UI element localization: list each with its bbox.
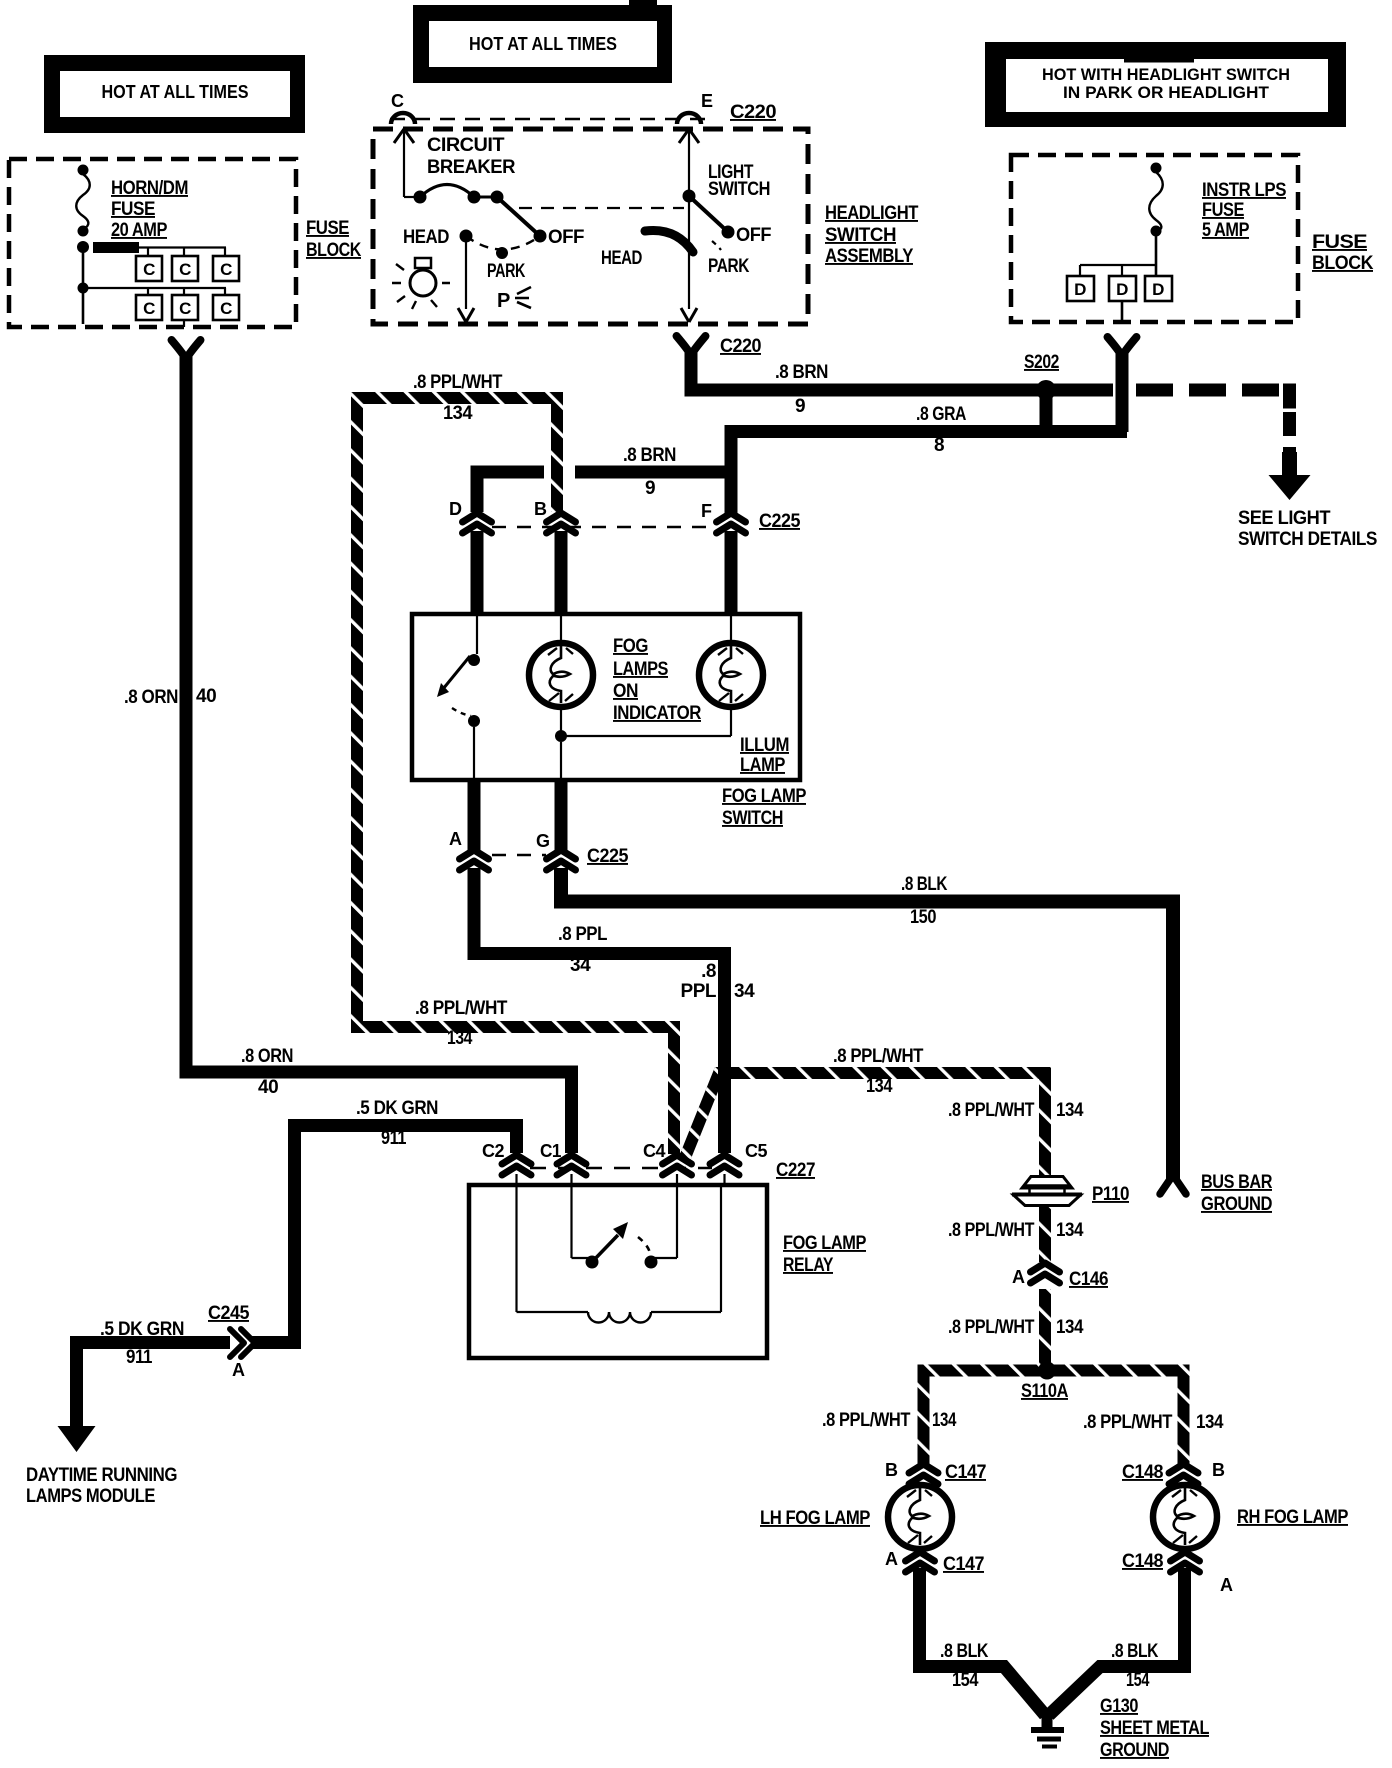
pin A connector bbox=[449, 829, 489, 870]
circuit breaker switch blade bbox=[497, 197, 540, 236]
svg-text:B: B bbox=[885, 1460, 898, 1480]
svg-text:A: A bbox=[885, 1549, 898, 1569]
headlamp icon bbox=[392, 258, 450, 309]
label .8 ORN 40 (vertical run) bbox=[124, 686, 216, 708]
svg-text:PARK: PARK bbox=[487, 261, 526, 282]
svg-text:.8: .8 bbox=[701, 961, 716, 982]
grommet P110 bbox=[1012, 1177, 1082, 1206]
svg-text:C225: C225 bbox=[587, 846, 629, 867]
svg-text:P110: P110 bbox=[1092, 1184, 1129, 1205]
svg-text:P: P bbox=[497, 290, 510, 312]
cavity C row2 box2 bbox=[172, 295, 198, 320]
fuse HORN/DM element bbox=[76, 174, 90, 229]
svg-text:134: 134 bbox=[932, 1410, 957, 1431]
svg-text:IN PARK OR HEADLIGHT: IN PARK OR HEADLIGHT bbox=[1063, 83, 1270, 102]
lamp common junction bbox=[555, 730, 731, 779]
cavity D box3 bbox=[1145, 276, 1172, 301]
label .5 DK GRN 911 (lower) bbox=[100, 1319, 184, 1368]
fog lamp relay box bbox=[469, 1185, 767, 1358]
wire .8 BLK 154 from RH lamp to ground bbox=[1049, 1568, 1185, 1715]
label .8 PPL/WHT 134 (RH branch) bbox=[1083, 1412, 1224, 1433]
illum lamp (right) bbox=[699, 616, 763, 736]
svg-text:C: C bbox=[179, 299, 191, 318]
label FUSE BLOCK (left) bbox=[306, 218, 362, 261]
label G130 SHEET METAL GROUND bbox=[1100, 1696, 1210, 1761]
label CIRCUIT BREAKER bbox=[427, 135, 516, 178]
svg-text:A: A bbox=[449, 829, 462, 849]
pin D connector bbox=[449, 499, 492, 533]
connector C225 lower dashed link bbox=[492, 854, 546, 856]
pin B connector C147 bbox=[885, 1460, 938, 1484]
wire bus row1 bbox=[139, 246, 226, 248]
label DAYTIME RUNNING LAMPS MODULE bbox=[26, 1465, 177, 1507]
svg-text:911: 911 bbox=[126, 1347, 153, 1368]
svg-text:C147: C147 bbox=[945, 1462, 986, 1483]
svg-text:SWITCH: SWITCH bbox=[825, 225, 896, 246]
breaker PARK contact dashed arc bbox=[466, 236, 540, 282]
svg-text:.8 BLK: .8 BLK bbox=[901, 874, 948, 895]
svg-text:HOT WITH HEADLIGHT SWITCH: HOT WITH HEADLIGHT SWITCH bbox=[1042, 65, 1290, 84]
svg-text:.8 PPL/WHT: .8 PPL/WHT bbox=[1083, 1412, 1173, 1433]
label PARK (light switch) with dashes bbox=[708, 241, 750, 277]
svg-text:C: C bbox=[143, 260, 155, 279]
svg-text:C147: C147 bbox=[943, 1554, 984, 1575]
svg-text:FOG LAMP: FOG LAMP bbox=[722, 786, 807, 807]
connector at left fuse block exit bbox=[172, 340, 201, 359]
wire row2 stub bbox=[183, 320, 185, 327]
svg-text:C: C bbox=[179, 260, 191, 279]
banner HOT WITH HEADLIGHT SWITCH IN PARK OR HEADLIGHT bbox=[985, 42, 1346, 127]
svg-text:B: B bbox=[1212, 1460, 1225, 1480]
fog lamp switch box bbox=[412, 614, 800, 780]
node at INSTR fuse top bbox=[1151, 163, 1162, 174]
connector C146 pin A bbox=[1012, 1263, 1060, 1287]
svg-text:INSTR LPS: INSTR LPS bbox=[1202, 180, 1286, 201]
label LIGHT SWITCH bbox=[708, 162, 770, 200]
fuse block (left) dashed box bbox=[9, 159, 296, 327]
light switch pivot bbox=[683, 190, 696, 203]
pin C bump bbox=[391, 113, 415, 124]
label .8 GRA 8 bbox=[916, 404, 967, 456]
svg-text:150: 150 bbox=[910, 907, 936, 928]
svg-text:RH FOG LAMP: RH FOG LAMP bbox=[1237, 1507, 1349, 1528]
svg-text:134: 134 bbox=[1056, 1100, 1084, 1121]
svg-text:D: D bbox=[1074, 280, 1086, 299]
node below INSTR fuse bbox=[1151, 226, 1162, 237]
connector at right fuse block exit bbox=[1108, 337, 1137, 356]
label .8 PPL/WHT 134 (LH branch) bbox=[822, 1410, 957, 1431]
svg-text:.8 BLK: .8 BLK bbox=[1111, 1641, 1159, 1662]
cavity C row1 box3 bbox=[213, 256, 239, 281]
svg-text:FUSE: FUSE bbox=[1202, 200, 1244, 221]
svg-text:.8 PPL/WHT: .8 PPL/WHT bbox=[948, 1100, 1035, 1121]
wire to D cavities bbox=[1080, 236, 1156, 276]
svg-text:SWITCH: SWITCH bbox=[722, 808, 783, 829]
svg-text:20 AMP: 20 AMP bbox=[111, 220, 168, 241]
node at fuse top bbox=[78, 165, 89, 176]
label .8 ORN 40 (horizontal run) bbox=[241, 1046, 293, 1098]
pin B connector C148 bbox=[1169, 1460, 1225, 1484]
svg-text:FUSE: FUSE bbox=[1312, 232, 1367, 253]
pin E arrow into box bbox=[679, 129, 699, 196]
svg-text:C4: C4 bbox=[643, 1141, 665, 1161]
indicator lamp (left) bbox=[529, 616, 593, 736]
svg-text:BLOCK: BLOCK bbox=[306, 240, 362, 261]
svg-text:ILLUM: ILLUM bbox=[740, 735, 789, 756]
svg-text:.8 PPL/WHT: .8 PPL/WHT bbox=[948, 1220, 1035, 1241]
svg-text:C220: C220 bbox=[720, 336, 761, 357]
svg-text:134: 134 bbox=[1056, 1317, 1084, 1338]
label .8 PPL/WHT 134 (above P110) bbox=[948, 1100, 1084, 1121]
label HORN/DM FUSE 20 AMP bbox=[111, 178, 188, 241]
svg-text:40: 40 bbox=[196, 686, 216, 707]
left bus vertical bbox=[82, 252, 85, 324]
wire .8 PPL/WHT to LH and RH fog lamps bbox=[924, 1371, 1184, 1467]
svg-text:C: C bbox=[391, 91, 404, 111]
label FUSE BLOCK (right) bbox=[1312, 232, 1374, 274]
svg-text:SWITCH DETAILS: SWITCH DETAILS bbox=[1238, 529, 1377, 550]
svg-text:C1: C1 bbox=[540, 1141, 561, 1161]
label .8 PPL 34 (vertical) bbox=[681, 961, 756, 1002]
svg-text:HEADLIGHT: HEADLIGHT bbox=[825, 203, 919, 224]
svg-text:C148: C148 bbox=[1122, 1462, 1163, 1483]
svg-text:134: 134 bbox=[866, 1076, 893, 1097]
connector C220 dashed line bbox=[390, 118, 714, 120]
label FOG LAMPS ON INDICATOR bbox=[613, 636, 702, 724]
breaker wiper line with arrow bbox=[458, 242, 474, 322]
svg-text:G: G bbox=[536, 831, 550, 851]
svg-text:LAMPS: LAMPS bbox=[613, 659, 668, 680]
wire .8 PPL 34 from A to relay C5 bbox=[474, 868, 725, 1153]
svg-text:5 AMP: 5 AMP bbox=[1202, 220, 1250, 241]
svg-text:34: 34 bbox=[734, 981, 755, 1002]
svg-text:C5: C5 bbox=[745, 1141, 767, 1161]
svg-text:C220: C220 bbox=[730, 102, 776, 123]
svg-text:134: 134 bbox=[447, 1028, 473, 1049]
svg-text:FUSE: FUSE bbox=[306, 218, 349, 239]
wire .8 PPL/WHT below P110 bbox=[1039, 1207, 1051, 1262]
svg-text:C: C bbox=[143, 299, 155, 318]
svg-text:.8 BRN: .8 BRN bbox=[775, 362, 828, 383]
wire .8 ORN 40 from fuse block to relay C1 bbox=[186, 356, 572, 1153]
splice S110A bbox=[1038, 1362, 1056, 1380]
switch pole and arm bbox=[437, 616, 480, 779]
svg-text:911: 911 bbox=[381, 1128, 407, 1149]
breaker OFF contact bbox=[534, 227, 585, 248]
wire .8 PPL/WHT diagonal from C4 to P110 run bbox=[684, 1073, 1045, 1178]
pin A lead out of switch bbox=[468, 779, 481, 850]
svg-text:LAMPS MODULE: LAMPS MODULE bbox=[26, 1486, 155, 1507]
cavity C row2 box1 bbox=[136, 295, 162, 320]
node at bus bbox=[77, 241, 89, 253]
wire below D box2 bbox=[1121, 301, 1124, 322]
wire .8 BLK 154 from LH lamp to ground bbox=[920, 1568, 1046, 1715]
svg-text:BREAKER: BREAKER bbox=[427, 157, 516, 178]
svg-text:E: E bbox=[701, 91, 713, 111]
banner HOT AT ALL TIMES (left) bbox=[44, 55, 305, 133]
svg-text:154: 154 bbox=[1126, 1670, 1150, 1691]
pin F lead into switch bbox=[725, 531, 738, 616]
svg-text:S202: S202 bbox=[1024, 352, 1059, 373]
svg-text:FOG LAMP: FOG LAMP bbox=[783, 1233, 867, 1254]
cavity D box1 bbox=[1067, 276, 1094, 301]
ground G130 symbol bbox=[1031, 1712, 1064, 1749]
svg-text:ASSEMBLY: ASSEMBLY bbox=[825, 246, 914, 267]
label ILLUM LAMP bbox=[740, 735, 789, 776]
pin C1 connector bbox=[540, 1141, 586, 1175]
label HEADLIGHT SWITCH ASSEMBLY bbox=[825, 203, 919, 267]
banner HOT AT ALL TIMES (middle) bbox=[413, 0, 672, 83]
svg-text:PPL: PPL bbox=[681, 981, 717, 1002]
svg-text:OFF: OFF bbox=[736, 225, 771, 246]
pin C2 connector bbox=[482, 1141, 531, 1175]
pin C arrow into box bbox=[394, 129, 414, 197]
svg-text:.5 DK GRN: .5 DK GRN bbox=[100, 1319, 184, 1340]
bus bar ground terminal bbox=[1160, 1175, 1186, 1194]
svg-text:GROUND: GROUND bbox=[1100, 1740, 1169, 1761]
svg-text:SWITCH: SWITCH bbox=[708, 179, 770, 200]
svg-text:OFF: OFF bbox=[548, 227, 584, 248]
label FOG LAMP SWITCH bbox=[722, 786, 807, 829]
svg-text:PARK: PARK bbox=[708, 256, 750, 277]
svg-text:C146: C146 bbox=[1069, 1269, 1108, 1290]
svg-text:40: 40 bbox=[258, 1077, 278, 1098]
svg-text:HEAD: HEAD bbox=[601, 248, 642, 269]
wire dashed to SEE LIGHT SWITCH DETAILS bbox=[1136, 384, 1311, 501]
svg-text:FUSE: FUSE bbox=[111, 199, 155, 220]
svg-text:9: 9 bbox=[795, 396, 805, 417]
relay switch arm with arrow bbox=[592, 1222, 650, 1262]
cavity D box2 bbox=[1109, 276, 1136, 301]
splice S202 bbox=[1036, 380, 1056, 400]
pin C4 connector bbox=[643, 1141, 692, 1175]
label .8 PPL/WHT 134 (below C146) bbox=[948, 1317, 1084, 1338]
svg-text:D: D bbox=[449, 499, 462, 519]
pin G lead out of switch bbox=[555, 779, 568, 850]
svg-text:.8 PPL/WHT: .8 PPL/WHT bbox=[413, 372, 503, 393]
light switch wiper line with arrow bbox=[681, 202, 697, 322]
label .8 BLK 150 bbox=[901, 874, 948, 928]
wire .8 BLK 150 from G to bus bar ground bbox=[561, 868, 1173, 1180]
svg-text:.8 BLK: .8 BLK bbox=[940, 1641, 989, 1662]
pin D lead into switch bbox=[471, 531, 484, 616]
svg-text:C227: C227 bbox=[776, 1160, 815, 1181]
wire .5 DK GRN 911 from DRL module to relay C2 bbox=[58, 1126, 517, 1453]
relay coil circuit bbox=[517, 1174, 725, 1323]
fuse block (right) dashed box bbox=[1011, 155, 1298, 322]
svg-text:D: D bbox=[1116, 280, 1128, 299]
svg-text:BLOCK: BLOCK bbox=[1312, 253, 1374, 274]
pin A connector C147 bbox=[885, 1549, 935, 1572]
svg-text:RELAY: RELAY bbox=[783, 1255, 834, 1276]
light switch OFF contact bbox=[722, 225, 772, 246]
mechanical linkage dashed bbox=[519, 207, 684, 209]
cavity C row1 box1 bbox=[136, 256, 162, 281]
light switch blade bbox=[689, 196, 728, 232]
svg-text:SEE LIGHT: SEE LIGHT bbox=[1238, 508, 1331, 529]
node row2 bbox=[78, 283, 89, 294]
label .8 PPL 34 bbox=[558, 924, 608, 976]
svg-text:F: F bbox=[701, 501, 712, 521]
pin A connector C148 bbox=[1171, 1552, 1234, 1595]
label .8 BRN 9 (lower) bbox=[623, 445, 676, 499]
headlight switch assembly dashed box bbox=[373, 129, 808, 324]
wire .8 BRN 9 (lower, D to F) bbox=[477, 472, 731, 512]
svg-text:.8 PPL: .8 PPL bbox=[558, 924, 608, 945]
cavity C row2 box3 bbox=[213, 295, 239, 320]
wire from fuse block to GRA corner bbox=[1116, 353, 1129, 432]
pin E bump bbox=[677, 113, 701, 124]
svg-text:G130: G130 bbox=[1100, 1696, 1138, 1717]
pin F connector bbox=[701, 501, 746, 533]
svg-text:.8 BRN: .8 BRN bbox=[623, 445, 676, 466]
svg-text:C148: C148 bbox=[1122, 1551, 1163, 1572]
svg-text:134: 134 bbox=[1196, 1412, 1224, 1433]
cavity C row1 box2 bbox=[172, 256, 198, 281]
circuit breaker contacts and arc bbox=[404, 185, 504, 204]
svg-text:154: 154 bbox=[952, 1670, 979, 1691]
connector C225 dashed line bbox=[492, 526, 716, 528]
svg-text:.8 PPL/WHT: .8 PPL/WHT bbox=[822, 1410, 911, 1431]
relay switch contacts bbox=[572, 1174, 678, 1269]
svg-text:C2: C2 bbox=[482, 1141, 504, 1161]
breaker HEAD contact bbox=[403, 227, 473, 248]
svg-text:HOT AT ALL TIMES: HOT AT ALL TIMES bbox=[469, 34, 617, 54]
label .8 BRN 9 (top) bbox=[775, 362, 828, 417]
label .8 BLK 154 (RH) bbox=[1111, 1641, 1159, 1691]
svg-text:134: 134 bbox=[443, 403, 473, 424]
svg-text:D: D bbox=[1152, 280, 1164, 299]
label .8 BLK 154 (LH) bbox=[940, 1641, 989, 1691]
svg-text:9: 9 bbox=[645, 478, 655, 499]
label SEE LIGHT SWITCH DETAILS bbox=[1238, 508, 1377, 550]
svg-text:C245: C245 bbox=[208, 1303, 250, 1324]
svg-text:34: 34 bbox=[570, 955, 591, 976]
svg-text:HOT AT ALL TIMES: HOT AT ALL TIMES bbox=[102, 82, 249, 102]
svg-text:.5 DK GRN: .5 DK GRN bbox=[356, 1098, 438, 1119]
svg-text:A: A bbox=[1012, 1267, 1025, 1287]
svg-text:.8 ORN: .8 ORN bbox=[124, 687, 178, 708]
svg-text:BUS BAR: BUS BAR bbox=[1201, 1172, 1273, 1193]
light switch HEAD lever arc bbox=[645, 230, 693, 252]
svg-text:DAYTIME RUNNING: DAYTIME RUNNING bbox=[26, 1465, 177, 1486]
S202 stub to GRA wire bbox=[1040, 390, 1053, 432]
svg-text:C225: C225 bbox=[759, 511, 801, 532]
svg-text:HEAD: HEAD bbox=[403, 227, 449, 248]
pin B connector bbox=[534, 499, 576, 533]
park indicator icon P bbox=[497, 287, 531, 312]
svg-text:SHEET METAL: SHEET METAL bbox=[1100, 1718, 1210, 1739]
svg-text:GROUND: GROUND bbox=[1201, 1194, 1272, 1215]
wire .8 PPL/WHT 134 loop from B bbox=[357, 398, 674, 1154]
svg-text:LH FOG LAMP: LH FOG LAMP bbox=[760, 1508, 871, 1529]
RH fog lamp bbox=[1153, 1485, 1217, 1549]
connector C245 bbox=[208, 1303, 255, 1380]
label .8 PPL/WHT 134 (lower horizontal) bbox=[415, 998, 508, 1049]
fuse INSTR LPS element bbox=[1149, 172, 1163, 231]
svg-text:HORN/DM: HORN/DM bbox=[111, 178, 188, 199]
pin B lead into switch bbox=[555, 531, 568, 616]
wire bus row2 bbox=[83, 287, 226, 289]
wire .8 BRN 9 to S202 bbox=[691, 352, 1113, 390]
pin G connector bbox=[536, 831, 576, 870]
svg-text:B: B bbox=[534, 499, 547, 519]
label .8 PPL/WHT 134 (to P110) bbox=[833, 1046, 924, 1097]
svg-text:.8 PPL/WHT: .8 PPL/WHT bbox=[948, 1317, 1035, 1338]
label .8 PPL/WHT 134 (top) bbox=[413, 372, 503, 424]
node below fuse bbox=[78, 226, 89, 237]
connector C220 exit bbox=[677, 336, 706, 355]
svg-text:.8 GRA: .8 GRA bbox=[916, 404, 967, 425]
svg-text:LAMP: LAMP bbox=[740, 755, 786, 776]
svg-text:C: C bbox=[220, 299, 232, 318]
svg-text:ON: ON bbox=[613, 681, 638, 702]
svg-text:.8 PPL/WHT: .8 PPL/WHT bbox=[833, 1046, 924, 1067]
label .5 DK GRN 911 (upper) bbox=[356, 1098, 438, 1149]
svg-text:FOG: FOG bbox=[613, 636, 648, 657]
label INSTR LPS FUSE 5 AMP bbox=[1202, 180, 1286, 241]
svg-text:.8 PPL/WHT: .8 PPL/WHT bbox=[415, 998, 508, 1019]
wire .8 PPL/WHT below C146 bbox=[1039, 1289, 1051, 1366]
svg-text:A: A bbox=[1220, 1575, 1233, 1595]
fuse slab bbox=[93, 242, 139, 253]
svg-text:134: 134 bbox=[1056, 1220, 1084, 1241]
svg-text:INDICATOR: INDICATOR bbox=[613, 703, 702, 724]
svg-text:A: A bbox=[232, 1360, 245, 1380]
label .8 PPL/WHT 134 (below P110) bbox=[948, 1220, 1084, 1241]
LH fog lamp bbox=[888, 1485, 952, 1549]
svg-text:.8 ORN: .8 ORN bbox=[241, 1046, 293, 1067]
wire .8 GRA 8 to fog lamp switch F bbox=[731, 432, 1127, 514]
label BUS BAR GROUND bbox=[1201, 1172, 1273, 1215]
label FOG LAMP RELAY bbox=[783, 1233, 867, 1276]
svg-text:S110A: S110A bbox=[1021, 1381, 1069, 1402]
pin C5 connector bbox=[710, 1141, 767, 1175]
connector C227 dashed line bbox=[530, 1167, 712, 1169]
svg-text:C: C bbox=[220, 260, 232, 279]
svg-text:CIRCUIT: CIRCUIT bbox=[427, 135, 505, 156]
svg-text:8: 8 bbox=[934, 435, 944, 456]
